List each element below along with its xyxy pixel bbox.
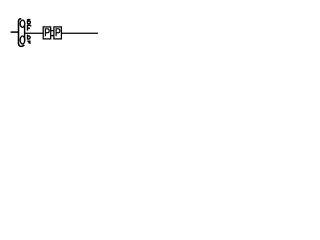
spring contact S1: [28, 19, 31, 24]
spring contact S2: [28, 25, 31, 31]
jack J1 lower ring: [20, 36, 25, 44]
relay coil P2 box: [54, 27, 62, 39]
jack J1 upper ring: [20, 20, 25, 27]
wire middle segment (jack bar to coil P1): [25, 32, 44, 34]
jack J1 post with curled ends: [19, 19, 25, 47]
mechanical link lower: [51, 35, 54, 37]
spring contact S4: [27, 41, 30, 44]
wire left stub to jack post: [11, 31, 19, 33]
wire right segment: [61, 32, 98, 34]
mechanical link upper: [51, 30, 54, 32]
relay coil P1 box: [43, 27, 51, 39]
relay coil P2 letter P: [56, 29, 60, 37]
jack J1 right bar: [24, 26, 26, 41]
relay coil P1 letter P: [45, 29, 49, 37]
spring contact S3: [28, 35, 31, 40]
